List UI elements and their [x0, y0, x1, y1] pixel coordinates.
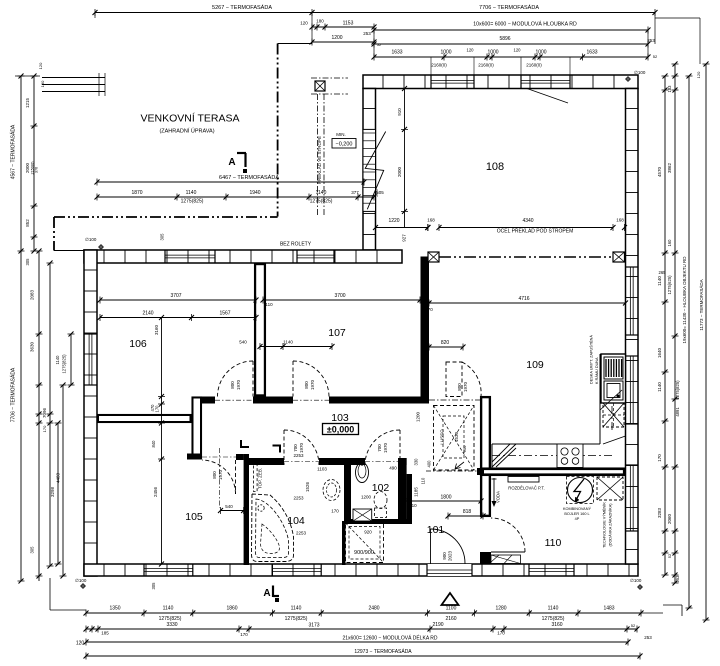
svg-text:1140: 1140 [186, 190, 197, 196]
svg-text:2160: 2160 [445, 616, 456, 622]
floor heating manifold [508, 477, 545, 491]
svg-text:170: 170 [425, 307, 433, 312]
svg-text:253: 253 [363, 31, 371, 36]
terrace boundary west corner [54, 217, 84, 251]
svg-text:4567 − TERMOFASÁDA: 4567 − TERMOFASÁDA [10, 124, 17, 179]
dim 818 room 101 [446, 509, 486, 520]
svg-text:LUSSO: LUSSO [440, 429, 445, 445]
staircase in wall opening with direction zigzag [363, 129, 386, 211]
bottom dim row D [84, 648, 643, 660]
wall: room 101 west thin wall [407, 474, 412, 524]
svg-text:1215: 1215 [25, 97, 30, 108]
wall: jog wall west end of hall [192, 397, 203, 460]
svg-text:600: 600 [462, 445, 467, 452]
svg-text:1100: 1100 [446, 606, 457, 612]
dim labels around 102 [293, 453, 431, 536]
svg-text:4716: 4716 [518, 296, 529, 302]
top dim row 120/180/1153 [300, 19, 376, 31]
svg-text:2000: 2000 [397, 166, 402, 177]
svg-text:1200: 1200 [361, 495, 372, 500]
svg-text:(DODÁVKA ZÁKAZNÍKA): (DODÁVKA ZÁKAZNÍKA) [609, 503, 613, 547]
left dim line 3298 [50, 421, 62, 567]
svg-text:1633: 1633 [391, 50, 402, 56]
heat exchanger hatched square room 110 [597, 477, 623, 548]
svg-text:1200: 1200 [416, 411, 421, 422]
label DESKA UMYV. [589, 335, 600, 384]
dim 3707 room 106 [98, 293, 259, 304]
svg-text:1483: 1483 [603, 606, 614, 612]
svg-text:1140: 1140 [291, 606, 302, 612]
wardrobe LUSSO (dashed with X) [416, 406, 475, 471]
svg-text:7706 − TERMOFASÁDA: 7706 − TERMOFASÁDA [10, 367, 17, 422]
svg-text:120: 120 [300, 21, 308, 26]
svg-text:170: 170 [331, 509, 339, 514]
svg-text:170: 170 [155, 405, 160, 413]
svg-text:2023: 2023 [448, 550, 453, 561]
svg-text:1530: 1530 [454, 431, 459, 442]
top dim row 1633/1000s [372, 48, 651, 61]
room label 110 [545, 537, 562, 549]
svg-text:DESKA UMYT. ZAPUŠTĚNÁ: DESKA UMYT. ZAPUŠTĚNÁ [589, 335, 594, 384]
svg-text:800: 800 [457, 383, 462, 391]
svg-text:108: 108 [486, 161, 504, 173]
svg-text:1275(825): 1275(825) [310, 199, 333, 205]
svg-text:A: A [228, 157, 235, 168]
room label 104 [287, 515, 305, 527]
wall: partition between 106 and 105 (W1) [97, 414, 192, 423]
svg-text:1200: 1200 [331, 35, 342, 41]
room label 105 [185, 511, 203, 523]
svg-text:VENKOVNÍ TERASA: VENKOVNÍ TERASA [140, 112, 239, 125]
wall: room 102 east wall [398, 458, 407, 524]
svg-text:180: 180 [40, 80, 45, 87]
dim 540+1140 doors [239, 340, 334, 351]
svg-text:170: 170 [497, 631, 505, 636]
subtitle ZAHRADNI UPRAVA [159, 128, 214, 135]
svg-text:265: 265 [659, 270, 667, 275]
svg-text:1153: 1153 [343, 21, 354, 27]
svg-text:180: 180 [316, 19, 324, 24]
kitchen sink unit with drainer [600, 354, 626, 410]
left margin top ticks [15, 62, 45, 87]
svg-text:110: 110 [421, 477, 426, 484]
svg-text:4P: 4P [575, 517, 580, 521]
svg-text:52: 52 [631, 623, 636, 628]
svg-text:102: 102 [372, 482, 390, 494]
svg-text:2190: 2190 [432, 622, 443, 628]
svg-text:1275(825): 1275(825) [62, 354, 67, 374]
svg-text:4570: 4570 [657, 166, 662, 177]
svg-text:2160(0): 2160(0) [431, 63, 447, 68]
svg-text:900/900: 900/900 [354, 550, 374, 556]
room label 106 [129, 338, 147, 350]
dim 1800 room 101 [402, 495, 484, 505]
svg-text:1275(825): 1275(825) [285, 616, 308, 622]
svg-text:101: 101 [427, 524, 445, 536]
top dim row 1200 [310, 31, 382, 47]
svg-text:TOP. ŽEB.: TOP. ŽEB. [256, 468, 263, 489]
svg-text:120: 120 [696, 71, 701, 78]
wall: top exterior wall of room 108 (y75-88.5) [363, 75, 638, 103]
svg-text:103: 103 [331, 412, 349, 424]
svg-text:170: 170 [240, 632, 248, 637]
svg-text:305: 305 [25, 258, 30, 266]
svg-text:183: 183 [667, 85, 672, 93]
door D110 to room 110 (leaf+arc) [491, 518, 525, 552]
svg-text:700: 700 [293, 444, 298, 452]
wall: partition between 104 and 102 [342, 458, 351, 565]
svg-text:110: 110 [409, 503, 417, 508]
room label 107 [328, 327, 346, 339]
svg-text:OCEL PŘEKLAD POD STROPEM: OCEL PŘEKLAD POD STROPEM [497, 227, 574, 235]
top labels 2160(0) [431, 63, 542, 68]
dim 2140+1567 room 106 [98, 311, 259, 322]
svg-text:110: 110 [545, 537, 562, 549]
svg-text:−0,200: −0,200 [336, 142, 353, 148]
svg-text:3700: 3700 [334, 293, 345, 299]
level box 0.000 [323, 424, 359, 435]
svg-text:106: 106 [129, 338, 147, 350]
svg-text:52: 52 [667, 553, 672, 558]
svg-text:900: 900 [442, 552, 447, 560]
jamb marker L (right) [273, 446, 281, 453]
svg-text:1220: 1220 [388, 218, 399, 224]
bottom dim row A [84, 606, 644, 617]
right dim line R3 HLOUBKA OBJEKTU [682, 74, 693, 611]
downpipe marker bottom-left [75, 578, 87, 589]
svg-text:1000: 1000 [535, 50, 546, 56]
downpipe marker bottom-right [630, 578, 643, 590]
svg-text:VODA: VODA [496, 491, 501, 503]
svg-text:927: 927 [402, 234, 407, 242]
svg-text:2160(0): 2160(0) [526, 63, 542, 68]
terrace boundary dashed south edge [54, 216, 278, 218]
svg-text:820: 820 [441, 340, 450, 346]
top dim row 5896 [372, 36, 658, 59]
svg-text:1970: 1970 [463, 381, 468, 392]
svg-text:3707: 3707 [170, 293, 181, 299]
room label 103 [331, 412, 349, 424]
svg-text:1185: 1185 [414, 487, 419, 497]
svg-text:4891: 4891 [675, 407, 680, 417]
svg-text:ROZDĚLOVAČ P.T.: ROZDĚLOVAČ P.T. [508, 486, 544, 491]
door D1 to room 106 (leaf+arc) [215, 361, 253, 400]
room label 102 [372, 482, 390, 494]
svg-text:3330: 3330 [166, 622, 177, 628]
svg-text:PŘEKLAD VE STROPĚ: PŘEKLAD VE STROPĚ [315, 136, 322, 184]
svg-text:160: 160 [667, 239, 672, 247]
svg-text:400: 400 [427, 460, 432, 468]
dim 168+4340+168 beam [426, 218, 628, 232]
svg-text:170: 170 [657, 454, 662, 462]
dim 3700 room 107 [261, 293, 423, 304]
right dim line R4 TERMOFASADA [698, 62, 710, 623]
svg-text:1275(825): 1275(825) [675, 380, 680, 400]
kitchen counter front edge L-shape [492, 354, 626, 468]
dim 4716 room 109 [265, 296, 628, 312]
dim 910/2000 in 108 [397, 86, 408, 242]
svg-text:3160: 3160 [551, 622, 562, 628]
svg-text:104: 104 [287, 515, 305, 527]
svg-text:253: 253 [644, 635, 652, 640]
thin line terrace top connector [278, 43, 312, 45]
svg-text:1970: 1970 [218, 469, 223, 480]
svg-text:168: 168 [427, 218, 435, 223]
right dim line R1 [657, 74, 669, 578]
svg-text:19x600= 11430 − HLOUBKA OB: 19x600= 11430 − HLOUBKA OBJEKTU RD [682, 256, 687, 344]
svg-text:505: 505 [376, 190, 384, 195]
washbasin room 104 (dashed oval) [323, 480, 340, 501]
svg-text:120: 120 [467, 48, 475, 53]
room label 108 [486, 161, 504, 173]
svg-text:105: 105 [185, 511, 203, 523]
washing machine room 102 [353, 509, 372, 521]
svg-text:1970: 1970 [299, 442, 304, 453]
svg-text:7096: 7096 [42, 407, 47, 418]
svg-text:910: 910 [397, 108, 402, 116]
svg-text:MIN.: MIN. [336, 132, 346, 137]
svg-text:110: 110 [265, 302, 273, 307]
door D3 hall to kitchen 109 (leaf+arc) [429, 362, 481, 400]
door D105 to room 105 (leaf+arc) [202, 448, 236, 508]
svg-text:2480: 2480 [368, 606, 379, 612]
svg-text:3173: 3173 [308, 623, 319, 629]
dim line 6467 TERMOFASADA [95, 174, 367, 186]
svg-text:253: 253 [647, 38, 655, 43]
wall: bathroom west wall (105/104) [244, 454, 249, 565]
svg-text:1140: 1140 [316, 190, 327, 196]
door D104 to bathroom 104 (leaf+arc) [284, 430, 319, 465]
downpipe marker top-right [625, 70, 646, 82]
svg-text:4340: 4340 [522, 218, 533, 224]
svg-text:3298: 3298 [50, 486, 55, 497]
boiler circle with lightning [563, 477, 594, 522]
svg-text:∅100: ∅100 [634, 70, 646, 75]
entry triangle marker [442, 593, 459, 605]
dim 305 below window 105 [151, 582, 156, 590]
svg-text:2253: 2253 [296, 531, 307, 536]
svg-text:120: 120 [514, 48, 522, 53]
dim 540 door 105 [218, 504, 246, 514]
svg-text:120: 120 [38, 62, 43, 69]
section mark A (top) [228, 153, 247, 173]
svg-text:107: 107 [328, 327, 346, 339]
svg-text:305: 305 [151, 582, 156, 590]
svg-text:4483: 4483 [56, 472, 61, 483]
label BEZ ROLETY [280, 242, 312, 248]
door D2 to room 107 (leaf+arc) [293, 361, 329, 400]
svg-text:1350: 1350 [109, 606, 120, 612]
svg-text:1526: 1526 [305, 481, 310, 492]
left dim line L3 (lower) [30, 249, 43, 582]
wall: left exterior wall of room 108 with staircase opening [363, 89, 376, 251]
svg-text:1000: 1000 [487, 50, 498, 56]
svg-text:∅100: ∅100 [85, 237, 97, 242]
bottom dim row A2 labels [159, 616, 565, 622]
wall: top exterior wall of rooms 106/107 (y250-263) [84, 250, 402, 263]
svg-text:840: 840 [151, 440, 156, 448]
heated towel rail TOP.ZEB. [254, 462, 263, 492]
svg-text:920: 920 [364, 530, 372, 535]
svg-text:TECHNOLOGIE VÝMĚNÍK: TECHNOLOGIE VÝMĚNÍK [602, 502, 607, 548]
svg-text:1640: 1640 [657, 347, 662, 358]
svg-text:109: 109 [526, 359, 544, 371]
svg-text:1140: 1140 [283, 340, 293, 345]
svg-text:253: 253 [675, 575, 680, 583]
svg-text:818: 818 [463, 509, 472, 515]
svg-text:∅100: ∅100 [75, 578, 87, 583]
room label 101 [427, 524, 445, 536]
dishwasher hatched square [603, 403, 624, 427]
svg-text:1275(825): 1275(825) [181, 199, 204, 205]
wall: partition between rooms 106 and 107 (I1) [254, 263, 266, 397]
steel beam line OCEL PREKLAD POD STROPEM [439, 256, 613, 258]
kitchen counter zigzag mark [492, 444, 516, 467]
svg-text:2140: 2140 [142, 311, 153, 317]
water supply arrow VODA [492, 478, 501, 507]
svg-text:2160(0): 2160(0) [478, 63, 494, 68]
svg-text:KOMBINOVANÝ: KOMBINOVANÝ [563, 507, 591, 511]
right bottom elbow [637, 605, 682, 616]
svg-text:BEZ ROLETY: BEZ ROLETY [280, 242, 312, 248]
svg-text:3283: 3283 [657, 507, 662, 518]
terrace boundary dashed east edge [277, 44, 279, 217]
level mark MIN -0.200 [332, 132, 356, 148]
svg-text:5896: 5896 [499, 36, 510, 42]
wall: room 102 south wall [344, 519, 408, 524]
left dim line 4483 [56, 383, 67, 579]
toilet room 102 (dashed) [374, 492, 387, 518]
steel column (left) with X [428, 252, 439, 262]
wall: west wall of kitchen 109 / room 110 [480, 396, 491, 564]
shower 900/900 (dashed) [346, 523, 384, 563]
wall: bottom exterior wall (y564-576) [84, 564, 638, 576]
svg-text:1103: 1103 [317, 467, 327, 472]
dim 3160 rotated and vertical chain [150, 233, 165, 567]
svg-text:±0,000: ±0,000 [327, 425, 354, 435]
svg-text:1275(625): 1275(625) [667, 275, 672, 295]
bottom dim row C [76, 635, 652, 647]
door D102 to room 102 (leaf+arc) [365, 430, 400, 465]
right dim line R2 [667, 62, 680, 586]
svg-text:21x600= 12600 − MODULOVÁ: 21x600= 12600 − MODULOVÁ DÉLKA RD [342, 635, 437, 642]
doormat at entry to 110 [491, 555, 521, 564]
svg-text:3630: 3630 [30, 341, 35, 352]
top dim riser lines [312, 13, 648, 76]
top label 10x600 MODULOVA HLOUBKA [372, 21, 651, 34]
svg-text:7706 − TERMOFASÁDA: 7706 − TERMOFASÁDA [479, 4, 539, 11]
svg-text:700: 700 [377, 444, 382, 452]
svg-text:185: 185 [101, 631, 109, 636]
svg-text:2000: 2000 [25, 162, 30, 173]
svg-text:3160: 3160 [154, 324, 159, 335]
svg-text:168: 168 [616, 218, 624, 223]
svg-text:1633: 1633 [586, 50, 597, 56]
section mark A (bottom) [263, 586, 279, 603]
svg-text:120: 120 [76, 641, 85, 647]
terrace steps top-left (3 lines) [42, 73, 105, 96]
label OCEL PREKLAD POD STROPEM [497, 227, 574, 235]
top right elbow [655, 13, 700, 65]
wall: partition between 109 and 110 [480, 468, 626, 477]
bottom dim row B [84, 622, 640, 637]
svg-text:6467 − TERMOFASÁDA: 6467 − TERMOFASÁDA [219, 174, 279, 181]
title VENKOVNI TERASA [140, 112, 239, 125]
bathtub (corner, dashed) [252, 494, 294, 562]
svg-text:1140: 1140 [548, 606, 559, 612]
svg-text:12973 − TERMOFASÁDA: 12973 − TERMOFASÁDA [354, 648, 412, 655]
svg-text:2060: 2060 [667, 513, 672, 524]
entry door D101 (leaf+arc) [431, 529, 466, 564]
svg-text:490: 490 [389, 466, 397, 471]
downpipe marker top-left [85, 237, 104, 250]
svg-text:3862: 3862 [667, 162, 672, 173]
svg-text:1000: 1000 [440, 50, 451, 56]
column at terrace (box with X) [315, 81, 325, 184]
left bottom elbow [50, 578, 86, 610]
svg-text:BOJLER 160 L: BOJLER 160 L [564, 512, 589, 516]
lintel in ceiling dash-dot pair [311, 78, 348, 215]
wall: room 105 north wall with door stub [187, 454, 244, 461]
svg-text:1800: 1800 [440, 495, 451, 501]
svg-text:2253: 2253 [293, 496, 304, 501]
svg-text:10x600= 6000 − MODULOVÁ HL: 10x600= 6000 − MODULOVÁ HLOUBKA RD [473, 21, 577, 28]
wall: hall north wall I2 with door openings [192, 397, 428, 404]
dim 1220 in 108 [373, 218, 430, 231]
svg-text:540: 540 [239, 340, 247, 345]
svg-text:2456: 2456 [153, 486, 158, 497]
wall: central wall between 107/103 and 109 [421, 257, 430, 404]
svg-text:1860: 1860 [226, 606, 237, 612]
svg-text:1970: 1970 [236, 379, 241, 390]
washbasin room 102 [356, 463, 369, 483]
svg-text:1970: 1970 [310, 379, 315, 390]
svg-text:(ZAHRADNÍ ÚPRAVA): (ZAHRADNÍ ÚPRAVA) [159, 128, 214, 135]
svg-text:5267 − TERMOFASÁDA: 5267 − TERMOFASÁDA [212, 4, 272, 11]
svg-text:1870: 1870 [131, 190, 142, 196]
left window dim chain 1140/1275(825) [55, 332, 75, 388]
wall: left exterior wall (x84-97) [84, 250, 97, 576]
svg-text:852: 852 [25, 219, 30, 227]
left dim line L1 4567/7706 TERMOFASADA [10, 74, 25, 584]
svg-text:376: 376 [35, 167, 39, 173]
room label 109 [526, 359, 544, 371]
svg-text:1940: 1940 [249, 190, 260, 196]
top dim row 5267/7706 TERMOFASADA [93, 4, 658, 18]
svg-text:11773 − TERMOFASÁDA: 11773 − TERMOFASÁDA [698, 279, 704, 330]
svg-text:330: 330 [414, 458, 419, 466]
svg-text:377: 377 [351, 190, 359, 195]
svg-text:2083: 2083 [30, 289, 35, 300]
svg-text:305: 305 [160, 233, 165, 241]
svg-text:1140: 1140 [657, 382, 662, 392]
svg-text:800: 800 [304, 381, 309, 389]
left dim line L2 (upper) [25, 74, 39, 266]
svg-text:800: 800 [212, 471, 217, 479]
svg-text:1140: 1140 [657, 276, 662, 286]
svg-text:1970: 1970 [383, 442, 388, 453]
svg-text:1567: 1567 [219, 311, 230, 317]
wall: bathroom/102 north wall [249, 458, 407, 465]
opening between hall 103 and room 101 (cased) [426, 462, 484, 475]
svg-text:305: 305 [30, 546, 35, 554]
jamb marker L (left) [241, 440, 249, 447]
stove with 4 burners [557, 444, 583, 468]
dim 820 door 109 [427, 340, 466, 351]
wall: right exterior wall (x625.5-638) [626, 89, 639, 565]
svg-text:52: 52 [377, 42, 382, 47]
svg-text:1280: 1280 [495, 606, 506, 612]
